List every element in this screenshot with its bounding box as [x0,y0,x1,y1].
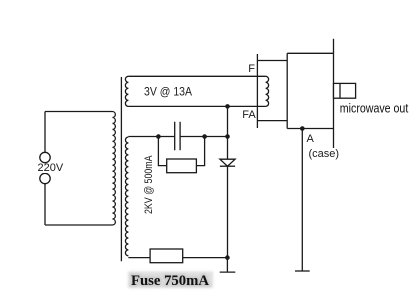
label Fuse 750mA [128,272,213,290]
svg-text:(case): (case) [309,148,340,160]
node: junction on 3V box bottom edge [225,104,230,109]
node: junction left of capacitor [156,134,161,139]
wire: HV bottom rail [128,257,227,259]
fuse F1 body [150,249,183,263]
wire: F lead [257,60,287,62]
svg-text:FA: FA [242,109,256,121]
wire: 3V box bottom edge [128,105,265,107]
diode D1 [220,137,235,258]
wire: HV top rail from secondary to diode [128,136,227,138]
resistor R1 body [167,159,197,173]
svg-text:A: A [307,133,315,145]
node: junction at diode top [225,134,230,139]
ground (HV return) [220,258,236,273]
node A (case junction) [300,126,305,131]
svg-text:microwave out: microwave out [340,102,409,116]
svg-text:Fuse 750mA: Fuse 750mA [131,273,209,289]
wire: mains loop left side [44,112,46,226]
wire: connector from filament winding to HV rail [227,106,229,136]
transformer HV secondary winding 2KV @ 500mA [125,137,128,256]
svg-text:220V: 220V [38,162,64,174]
node: junction right of capacitor [202,134,207,139]
wire: resistor right leg [196,137,204,166]
ground (case) [295,270,310,272]
magnetron heater coil (right coil of 3V box) [266,76,269,106]
capacitor C1 plates [175,122,180,151]
wire: case to ground [301,129,303,272]
wire: FA lead [257,120,287,122]
svg-text:F: F [248,63,255,75]
transformer T1 primary winding [113,112,116,226]
magnetron body [287,53,333,128]
svg-text:2KV @ 500mA: 2KV @ 500mA [143,155,155,214]
wire: 3V box top edge [128,75,265,77]
transformer filament winding (left coil of 3V box) [125,76,128,106]
microwave output port stub [334,83,356,98]
AC source 220V terminal circles [37,152,64,183]
wire: resistor left leg [158,137,166,166]
wire: mains loop top [45,111,113,113]
wire: mains loop bottom [45,224,113,226]
wire: filament bracket (F to FA) [256,54,258,128]
node: junction bottom rail / ground [225,255,230,260]
transformer core [120,77,122,261]
magnetron anode/case right edge [333,39,335,148]
svg-text:3V @ 13A: 3V @ 13A [144,85,192,99]
